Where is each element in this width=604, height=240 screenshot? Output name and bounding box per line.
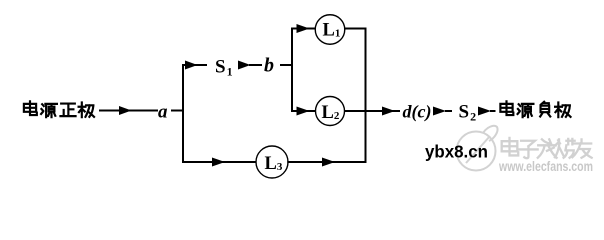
wire from positive terminal to node a with arrow	[99, 106, 158, 115]
wire a-junction to switch S1 with arrow	[183, 61, 207, 70]
wire a-junction to lamp L3 with arrow	[183, 158, 256, 167]
wire node a to vertical junction	[171, 110, 184, 112]
wire b-junction to lamp L2 with arrow	[292, 107, 315, 116]
svg-text:www.elecfans.com: www.elecfans.com	[498, 158, 593, 174]
wire lamp L1 to right vertical junction	[345, 28, 367, 30]
svg-text:b: b	[264, 55, 274, 77]
svg-text:a: a	[158, 102, 168, 123]
label 电源负极 (power negative terminal)	[500, 101, 570, 117]
wire node d(c) to switch S2 with arrow	[433, 107, 452, 116]
watermark logo circle (elecfans ghost logo)	[457, 126, 498, 171]
lamp L3	[256, 146, 288, 178]
wire lamp L3 to right vertical junction with arrow	[287, 158, 366, 167]
wire b-junction to lamp L1 with arrow	[292, 24, 316, 33]
wire vertical line at node a (junction to S1 branch and L3 branch)	[183, 65, 184, 162]
lamp L2	[316, 97, 345, 126]
svg-text:d(c): d(c)	[403, 102, 432, 123]
wire lamp L2 through junction to node d(c) with arrow	[344, 107, 400, 116]
wire right vertical line (joins L1, L2 outputs and L3)	[365, 28, 367, 164]
wire node b to parallel junction	[280, 64, 293, 66]
wire switch S1 to node b with arrow	[238, 61, 262, 70]
label 电源正极 (power positive terminal)	[24, 101, 94, 117]
lamp L1	[315, 15, 345, 45]
wire switch S2 to negative terminal with arrow	[478, 107, 496, 116]
wire vertical line at node b (splits to L1 and L2)	[292, 29, 293, 112]
svg-text:ybx8.cn: ybx8.cn	[425, 142, 488, 162]
watermark 电子发烧友	[502, 138, 592, 158]
